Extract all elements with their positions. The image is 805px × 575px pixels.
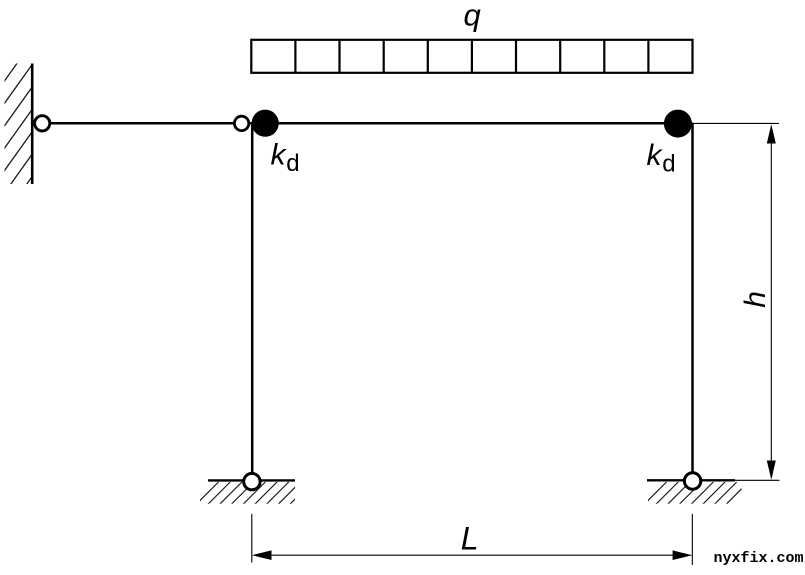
svg-text:nyxfix.com: nyxfix.com	[714, 550, 804, 567]
svg-text:L: L	[461, 521, 479, 557]
svg-text:d: d	[286, 150, 299, 177]
svg-text:d: d	[662, 150, 675, 177]
svg-text:h: h	[739, 291, 772, 308]
svg-text:k: k	[647, 139, 664, 172]
svg-text:k: k	[271, 138, 288, 171]
svg-text:q: q	[464, 0, 482, 33]
